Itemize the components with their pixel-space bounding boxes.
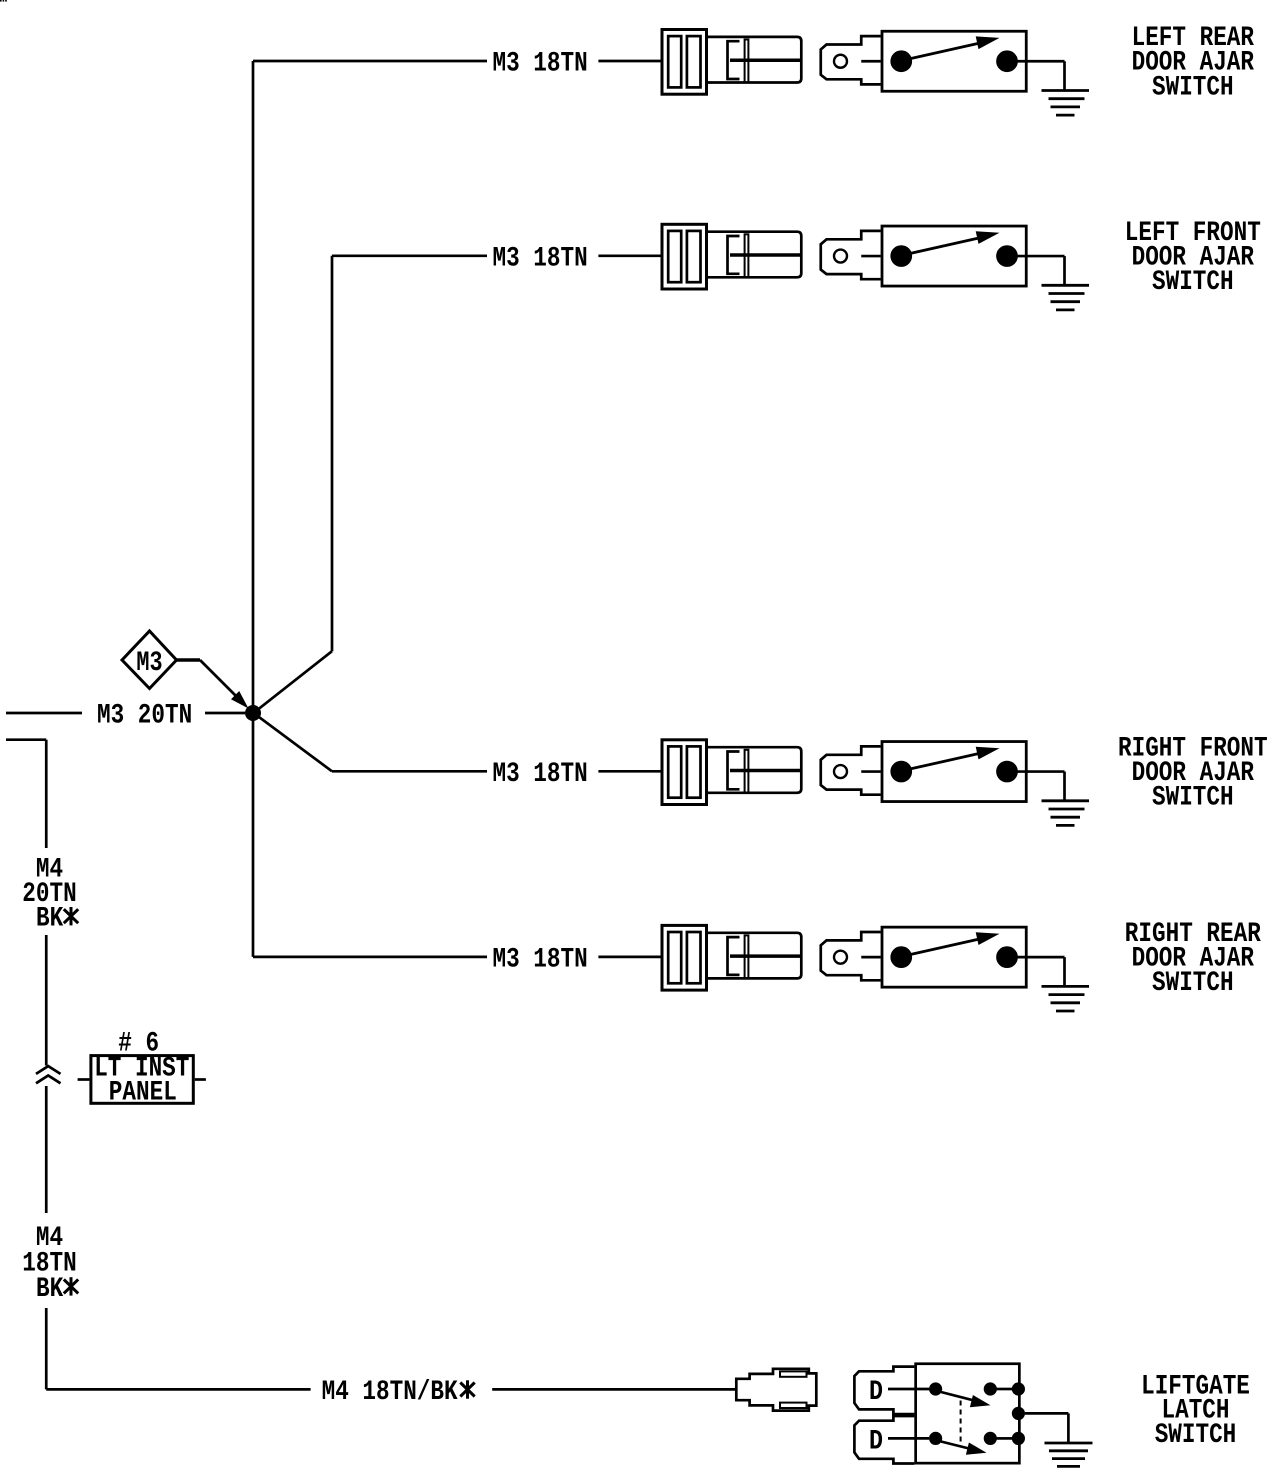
svg-text:SWITCH: SWITCH — [1152, 968, 1234, 999]
svg-text:SWITCH: SWITCH — [1152, 72, 1234, 103]
svg-text:SWITCH: SWITCH — [1152, 783, 1234, 814]
svg-text:M3 18TN: M3 18TN — [493, 243, 588, 274]
svg-text:D: D — [869, 1427, 883, 1458]
svg-text:PANEL: PANEL — [109, 1078, 177, 1109]
svg-text:M3 18TN: M3 18TN — [493, 944, 588, 975]
svg-text:BK: BK — [36, 904, 64, 935]
svg-text:SWITCH: SWITCH — [1155, 1420, 1237, 1451]
svg-text:M3: M3 — [136, 648, 162, 679]
svg-text:M3 18TN: M3 18TN — [493, 759, 588, 790]
svg-text:BK: BK — [36, 1274, 64, 1305]
svg-text:M4 18TN/BK: M4 18TN/BK — [322, 1377, 458, 1408]
svg-text:M3 18TN: M3 18TN — [493, 48, 588, 79]
svg-text:SWITCH: SWITCH — [1152, 267, 1234, 298]
svg-text:D: D — [869, 1377, 883, 1408]
svg-text:M3 20TN: M3 20TN — [97, 700, 192, 731]
